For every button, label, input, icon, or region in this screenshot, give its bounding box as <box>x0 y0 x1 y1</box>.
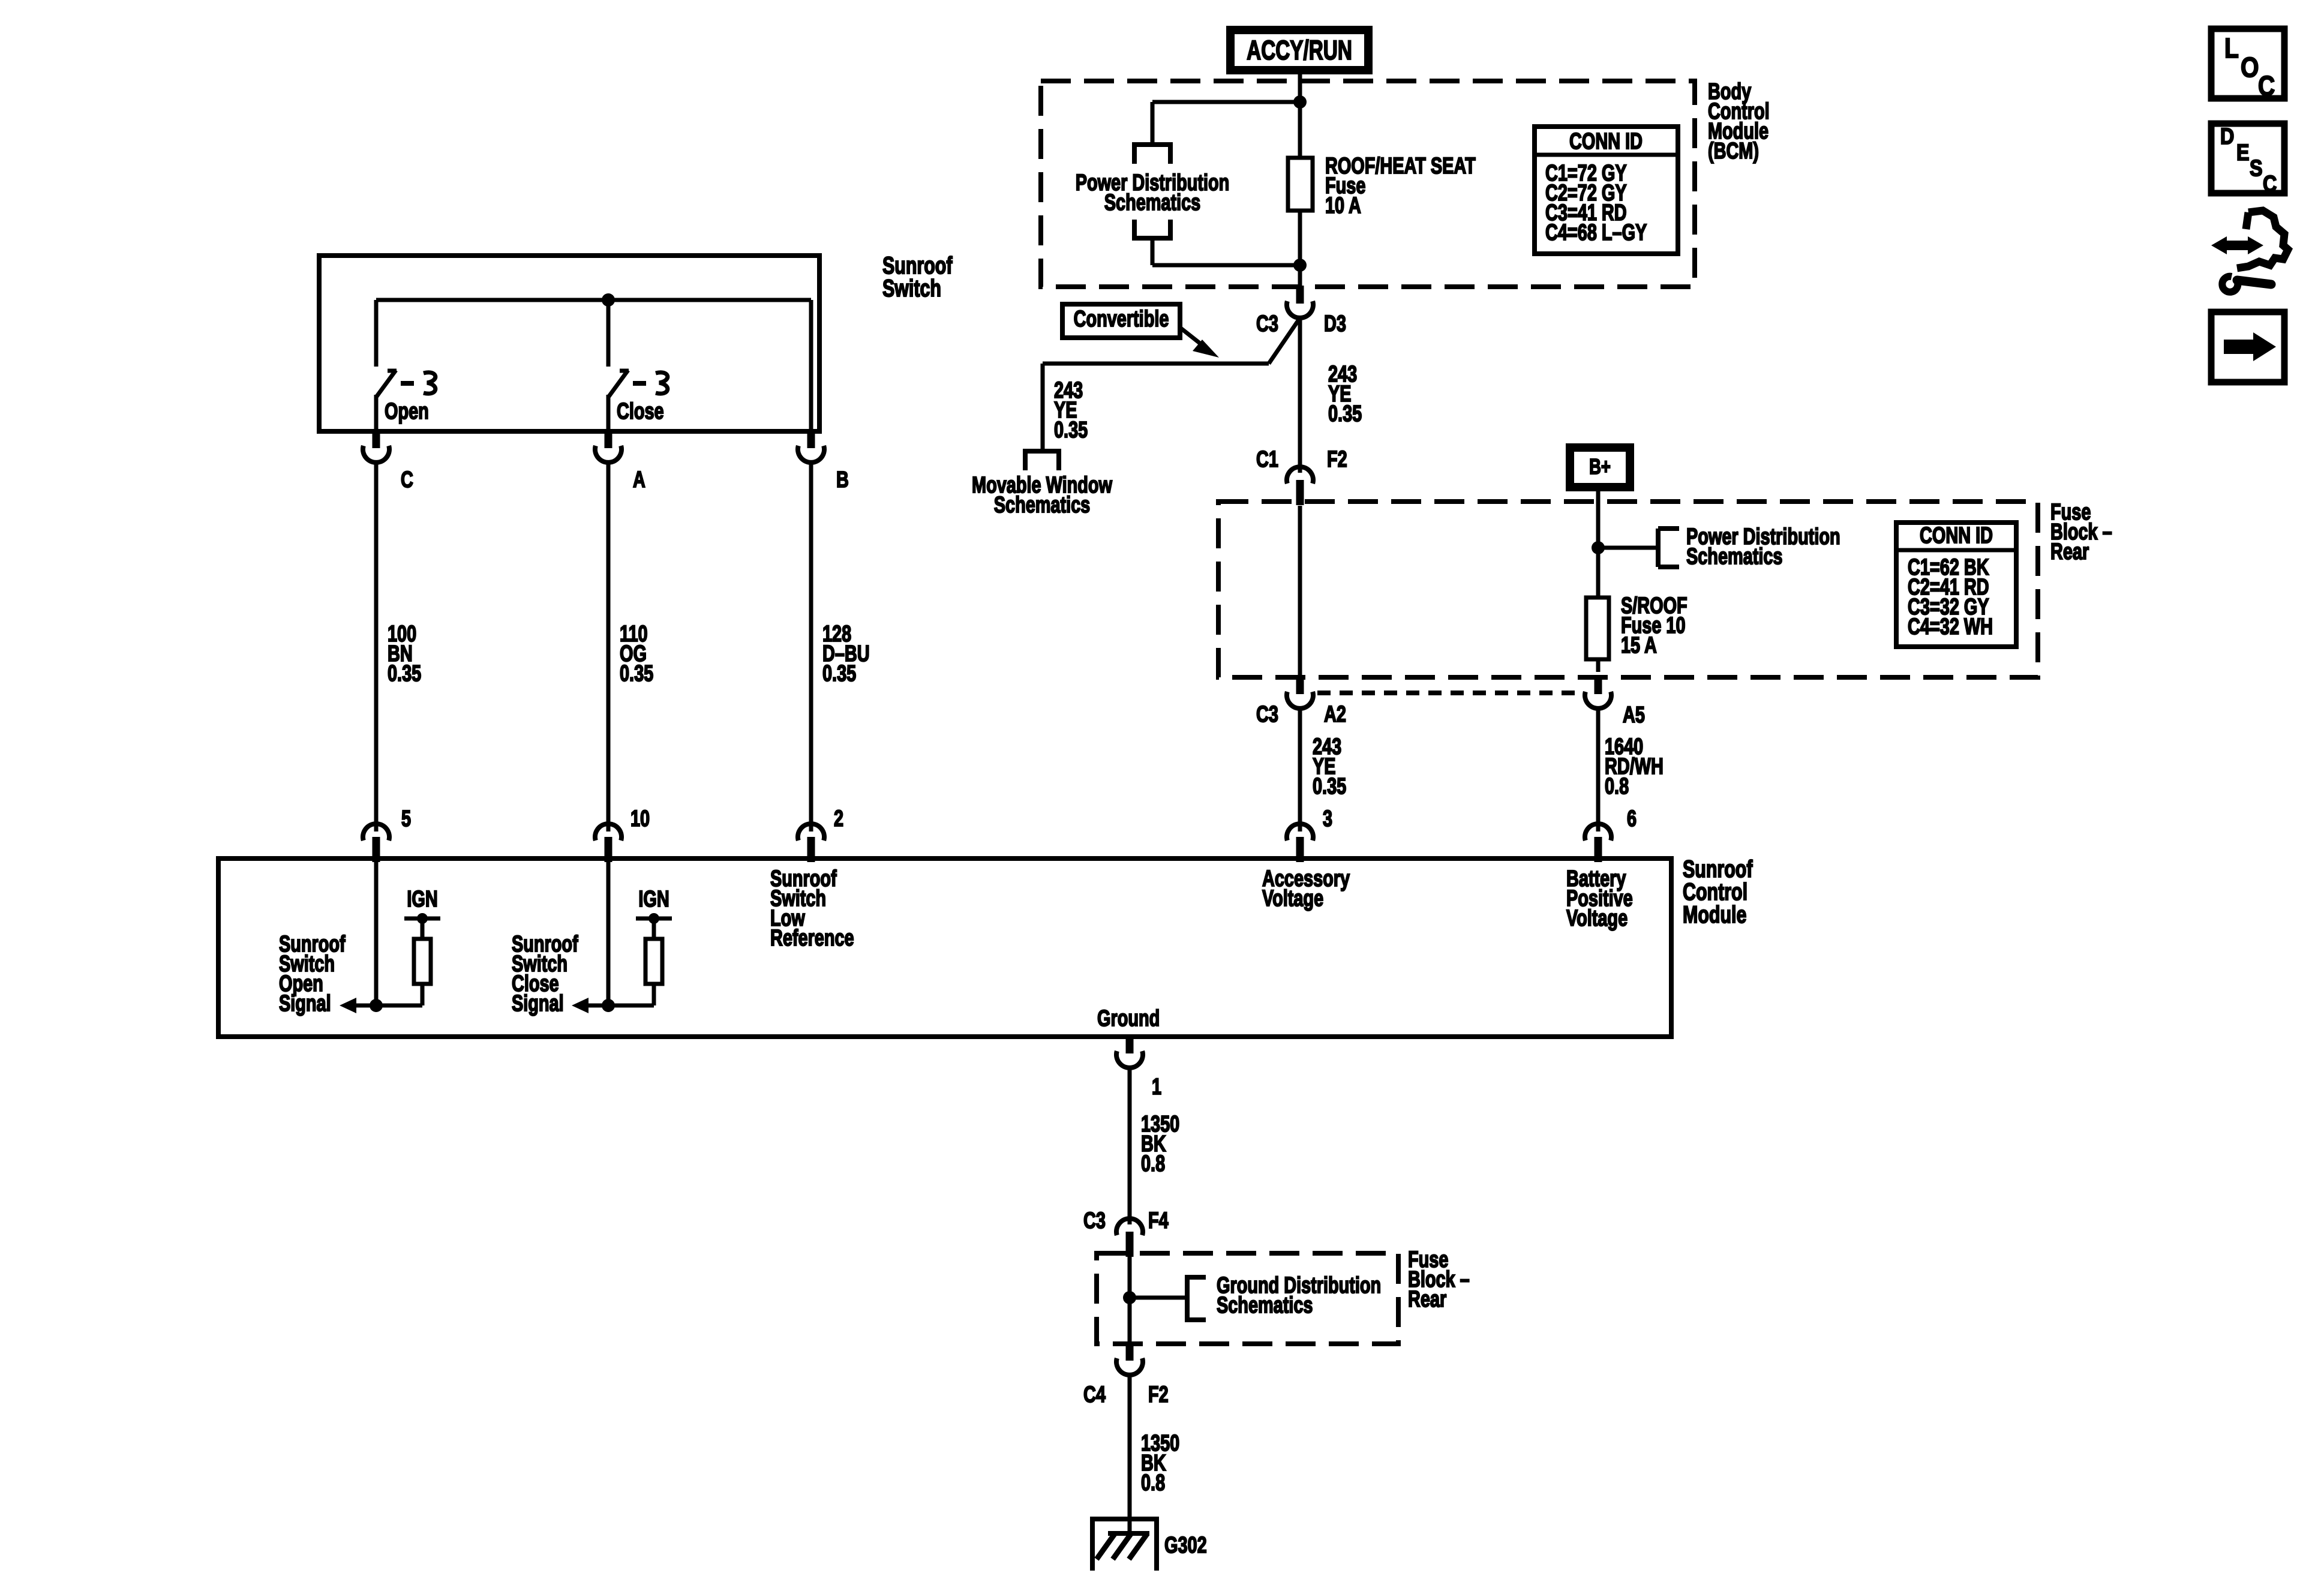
svg-text:Rear: Rear <box>2050 539 2089 565</box>
svg-text:L: L <box>2224 33 2239 64</box>
svg-text:Close: Close <box>617 398 664 424</box>
svg-text:Schematics: Schematics <box>1217 1292 1313 1318</box>
svg-text:Voltage: Voltage <box>1262 885 1323 911</box>
svg-text:10: 10 <box>630 806 650 831</box>
svg-text:CONN ID: CONN ID <box>1569 128 1643 154</box>
svg-text:C1: C1 <box>1256 446 1278 472</box>
svg-text:0.8: 0.8 <box>1605 773 1629 799</box>
svg-text:S: S <box>2250 156 2263 181</box>
svg-text:6: 6 <box>1627 806 1637 831</box>
svg-text:0.8: 0.8 <box>1141 1470 1165 1496</box>
svg-text:C4=32 WH: C4=32 WH <box>1908 614 1993 640</box>
svg-text:Signal: Signal <box>512 990 564 1016</box>
svg-text:Rear: Rear <box>1408 1286 1446 1312</box>
svg-text:C3: C3 <box>1256 701 1278 727</box>
svg-text:IGN: IGN <box>407 886 437 912</box>
svg-text:0.35: 0.35 <box>1328 401 1362 427</box>
svg-text:O: O <box>2241 52 2259 83</box>
svg-text:0.35: 0.35 <box>822 661 856 686</box>
svg-text:0.35: 0.35 <box>620 661 653 686</box>
svg-text:0.35: 0.35 <box>1054 417 1088 443</box>
svg-text:Signal: Signal <box>279 990 331 1016</box>
svg-text:ACCY/RUN: ACCY/RUN <box>1247 35 1352 65</box>
svg-text:15 A: 15 A <box>1621 632 1657 658</box>
svg-text:F2: F2 <box>1327 446 1347 472</box>
svg-text:Convertible: Convertible <box>1074 306 1169 332</box>
svg-text:0.35: 0.35 <box>388 661 421 686</box>
svg-text:F4: F4 <box>1148 1208 1169 1233</box>
svg-text:D3: D3 <box>1324 311 1346 337</box>
svg-text:Schematics: Schematics <box>1686 544 1782 569</box>
svg-text:(BCM): (BCM) <box>1708 138 1759 164</box>
svg-text:D: D <box>2220 124 2234 149</box>
svg-text:C4: C4 <box>1083 1382 1106 1407</box>
svg-text:Reference: Reference <box>770 925 854 951</box>
svg-text:0.8: 0.8 <box>1141 1151 1165 1176</box>
svg-text:Schematics: Schematics <box>1104 190 1200 215</box>
svg-text:Open: Open <box>385 398 429 424</box>
svg-text:B+: B+ <box>1589 454 1611 479</box>
svg-text:IGN: IGN <box>638 886 669 912</box>
svg-text:A2: A2 <box>1324 701 1346 727</box>
svg-text:Switch: Switch <box>882 275 941 302</box>
svg-text:A5: A5 <box>1623 702 1645 728</box>
svg-text:C4=68 L–GY: C4=68 L–GY <box>1545 220 1647 245</box>
svg-text:A: A <box>633 467 645 493</box>
svg-text:3: 3 <box>1323 806 1332 831</box>
svg-text:5: 5 <box>401 806 411 831</box>
svg-text:CONN ID: CONN ID <box>1920 523 1993 548</box>
svg-text:E: E <box>2236 140 2250 166</box>
svg-text:2: 2 <box>834 806 843 831</box>
svg-text:G302: G302 <box>1164 1532 1207 1558</box>
svg-text:Ground: Ground <box>1097 1005 1160 1031</box>
svg-text:C: C <box>2263 172 2277 197</box>
svg-text:Schematics: Schematics <box>994 492 1090 518</box>
svg-text:1: 1 <box>1152 1074 1161 1100</box>
svg-text:F2: F2 <box>1148 1382 1169 1407</box>
svg-text:C3: C3 <box>1256 311 1278 337</box>
svg-text:C: C <box>401 467 413 493</box>
svg-text:10 A: 10 A <box>1325 193 1361 218</box>
svg-text:Module: Module <box>1683 901 1746 928</box>
svg-text:0.35: 0.35 <box>1313 773 1346 799</box>
svg-text:B: B <box>836 467 849 493</box>
svg-text:C: C <box>2258 71 2275 102</box>
svg-text:Voltage: Voltage <box>1566 905 1628 931</box>
svg-text:C3: C3 <box>1083 1208 1106 1233</box>
